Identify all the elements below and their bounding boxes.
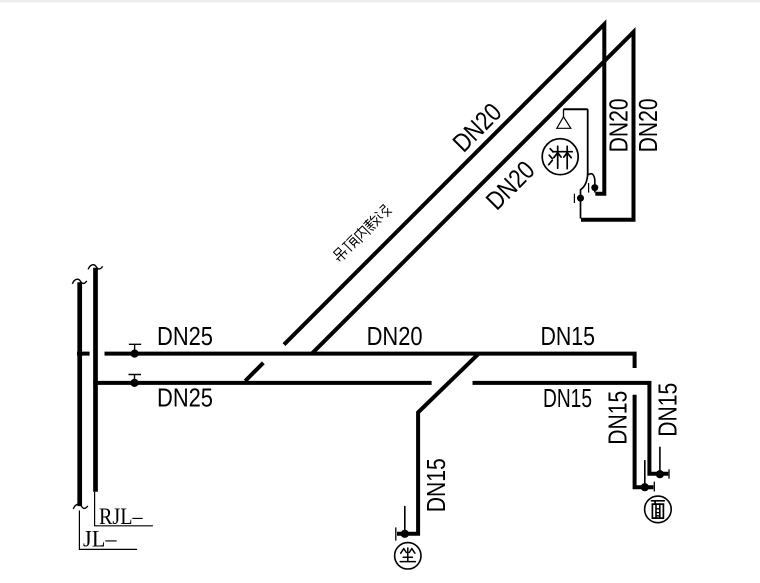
cold drop lower segment to basin faucet elbow bbox=[635, 395, 654, 488]
thin pipe from dot2 down to riser2 bottom run bbox=[580, 198, 582, 218]
basin cold faucet tick bbox=[653, 482, 655, 492]
leader line for JL label bbox=[79, 511, 137, 550]
shower curve to cold valve dot2 bbox=[581, 174, 588, 196]
leader line for RJL label bbox=[95, 492, 153, 526]
stub joining dot1 to riser1 elbow bbox=[594, 188, 596, 193]
riser RJL (hot water riser, right vertical pipe) bbox=[93, 268, 98, 492]
basin cold faucet dot bbox=[641, 483, 649, 491]
fixture circle: toilet (zuo) bbox=[395, 543, 421, 569]
toilet faucet dot bbox=[401, 530, 409, 538]
shower head hanger vertical bbox=[563, 109, 565, 117]
upper main (cold water DN25/DN20/DN15) with right turn-down to y368 bbox=[105, 354, 635, 368]
lower main (hot water DN25) left piece bbox=[93, 381, 431, 385]
note text: laid inside ceiling (diao ding nei fu she), rotated along diagonal 1 bbox=[332, 204, 392, 263]
toilet branch: diagonal from upper main, drop, elbow left bbox=[397, 354, 478, 533]
basin hot faucet dot bbox=[656, 470, 664, 478]
svg-text:JL–: JL– bbox=[83, 527, 117, 552]
svg-text:DN15: DN15 bbox=[541, 321, 596, 351]
break squiggle at top of JL riser bbox=[72, 279, 87, 284]
char FU bbox=[363, 214, 381, 232]
svg-text:DN20: DN20 bbox=[633, 98, 663, 152]
svg-text:DN15: DN15 bbox=[421, 458, 451, 512]
tick at shower cold valve bbox=[573, 194, 575, 203]
character MIAN (basin) inside circle bbox=[652, 501, 665, 518]
shower head supply: horizontal run bbox=[564, 108, 588, 110]
stub of cold main crossing RJL riser bbox=[77, 352, 90, 356]
tick at shower hot valve bbox=[588, 183, 590, 193]
basin hot faucet stand stub bbox=[659, 447, 661, 472]
svg-text:DN15: DN15 bbox=[543, 383, 592, 413]
svg-text:DN15: DN15 bbox=[653, 383, 683, 437]
riser JL (cold water riser, left vertical pipe) bbox=[77, 282, 82, 506]
character LIN (shower) inside circle bbox=[549, 146, 573, 169]
diagonal pipe 1 (hot DN20 to shower) with top turn and riser down to shower elbow bbox=[284, 24, 604, 344]
fixture circle: shower (lin) bbox=[542, 139, 578, 175]
valve on lower main: stem and T-bar bbox=[129, 375, 142, 383]
hot branch rising stub from lower main bbox=[245, 363, 263, 381]
break squiggle at top of RJL riser bbox=[88, 265, 103, 270]
toilet faucet tick bbox=[395, 527, 397, 540]
fixture circle: basin (mian) bbox=[645, 496, 672, 523]
valve dot on upper main bbox=[131, 350, 139, 358]
diagonal pipe 2 (cold DN20 to shower) with top turn, riser and bottom run bbox=[312, 32, 634, 354]
break squiggle at bottom of JL riser bbox=[73, 504, 88, 509]
svg-text:DN15: DN15 bbox=[603, 391, 633, 445]
svg-text:DN25: DN25 bbox=[157, 383, 213, 413]
shower column vertical pipe bbox=[587, 109, 589, 174]
crossover hump from hot valve dot1 bbox=[588, 174, 595, 185]
svg-text:DN20: DN20 bbox=[604, 98, 634, 152]
basin hot faucet tick bbox=[668, 469, 670, 478]
shower cold connection dot2 bbox=[577, 195, 584, 202]
lower main right piece with turn-down to hot basin faucet elbow bbox=[473, 383, 669, 474]
char DING bbox=[342, 235, 359, 252]
valve dot on lower main bbox=[130, 379, 138, 387]
basin cold faucet stand stub bbox=[644, 460, 646, 484]
char DIAO bbox=[332, 246, 350, 264]
valve on upper main: stem and T-bar bbox=[129, 344, 141, 353]
character ZUO (toilet) inside circle bbox=[400, 548, 415, 562]
svg-text:RJL–: RJL– bbox=[99, 504, 143, 529]
svg-text:DN20: DN20 bbox=[367, 321, 423, 351]
shower hot connection dot1 bbox=[591, 184, 598, 191]
char SHE bbox=[375, 204, 392, 221]
top faint border line bbox=[0, 0, 760, 2]
svg-text:DN25: DN25 bbox=[157, 321, 213, 351]
toilet faucet stand stub bbox=[404, 506, 406, 531]
char NEI bbox=[353, 225, 370, 242]
shower head nozzle triangle bbox=[557, 117, 571, 129]
